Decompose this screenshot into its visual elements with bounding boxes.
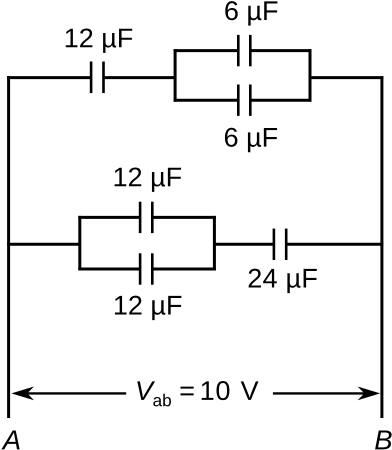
wire: 6uF loop bottom edge left part [174, 99, 239, 102]
wire: 6uF parallel loop left edge [174, 49, 177, 102]
node B label [375, 430, 392, 449]
value label 6 uF (upper) [225, 1, 277, 25]
label Vab = 10 V [137, 381, 258, 406]
dimension arrow shaft right [273, 392, 372, 394]
wire: top branch left segment [7, 76, 91, 79]
value label 24 uF [249, 269, 317, 293]
wire: 12uF loop bottom edge right part [152, 268, 216, 271]
wire: top branch right segment [310, 76, 383, 79]
wire: 12uF loop top edge left part [78, 216, 140, 219]
value label 12 uF (upper of parallel pair) [115, 167, 181, 191]
wire: left vertical rail (node a side) [7, 76, 10, 418]
value label 6 uF (lower) [225, 128, 277, 152]
capacitor C6 24 uF (middle branch series) [274, 229, 286, 260]
dimension arrow head left (points to node A rail) [11, 387, 34, 401]
wire: 12uF loop bottom edge left part [78, 268, 140, 271]
capacitor C5 12 uF (lower of parallel pair) [140, 253, 152, 284]
wire: top branch middle segment [104, 76, 176, 79]
wire: 6uF loop top edge right part [250, 49, 311, 52]
value label 12 uF (lower of parallel pair) [115, 296, 181, 320]
dimension arrow head right (points to node B rail) [358, 387, 381, 401]
wire: middle branch left segment [7, 243, 80, 246]
wire: 12uF loop top edge right part [152, 216, 216, 219]
wire: 6uF parallel loop right edge [309, 49, 312, 102]
wire: 12uF parallel loop left edge [78, 216, 81, 271]
wire: middle branch right segment [286, 243, 383, 246]
dimension arrow shaft left [20, 392, 126, 394]
capacitor C4 12 uF (upper of parallel pair) [140, 202, 152, 233]
node A label [1, 430, 19, 449]
wire: right vertical rail (node b side) [380, 76, 383, 418]
capacitor C2 6 uF (upper of parallel pair) [238, 35, 250, 66]
capacitor C3 6 uF (lower of parallel pair) [238, 85, 250, 116]
wire: 12uF parallel loop right edge [213, 216, 216, 271]
wire: 6uF loop bottom edge right part [250, 99, 311, 102]
wire: middle branch segment from loop to 24uF [214, 243, 274, 246]
capacitor C1 12 uF (top branch series) [91, 62, 103, 94]
value label 12 uF (top branch) [66, 28, 132, 52]
wire: 6uF loop top edge left part [174, 49, 239, 52]
